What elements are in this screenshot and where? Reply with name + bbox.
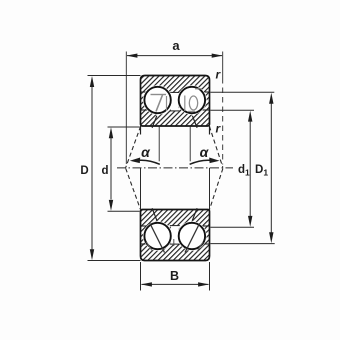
inner ring shoulder lines (bottom section) (141, 225, 148, 227)
dimension d: top arrowhead (109, 127, 113, 138)
raceway groove halo top-right (177, 85, 206, 114)
dimension D1: bottom arrowhead (269, 232, 273, 243)
center rib white gap (top section) (171, 93, 179, 111)
contact line segment through inner ring, bottom-right (192, 208, 197, 220)
dimension a: right arrowhead (212, 54, 223, 58)
watermark mark in top-left ball (151, 95, 167, 112)
dimension D: line (91, 87, 93, 250)
contact angle line lower-right (dashed) (209, 168, 223, 209)
dimension D1: leaders (211, 91, 275, 93)
alpha arrow right (190, 160, 210, 164)
dimension d1: bottom arrowhead (248, 216, 252, 227)
dimension B: right arrowhead (198, 282, 209, 286)
svg-text:α: α (141, 144, 151, 160)
dimension d: line (110, 137, 112, 200)
dimension a: extension line right upper (222, 52, 224, 79)
dimension d: leaders (108, 126, 140, 128)
dimension a: extension line right lower (dashed) (222, 78, 224, 165)
dimension D1: top arrowhead (269, 93, 273, 104)
contact line through bottom-left ball (150, 224, 165, 253)
bottom bearing section (outer+inner ring, hatched) (141, 210, 210, 261)
svg-text:D: D (80, 165, 88, 177)
contact line segment through inner ring, bottom-left (152, 208, 157, 220)
dimension a: extension line left (125, 52, 127, 165)
dimension a: left arrowhead (126, 54, 137, 58)
dimension D: top arrowhead (90, 76, 94, 87)
svg-text:a: a (172, 38, 180, 53)
dimension d1: top arrowhead (248, 111, 252, 122)
raceway groove halo top-left (143, 85, 172, 114)
face extension line right (axis to bottom section) (209, 168, 211, 210)
contact angle line lower-left (dashed) (126, 168, 141, 209)
svg-text:α: α (200, 144, 210, 160)
ball bottom-left (144, 223, 170, 249)
extra mark bottom-left ball (147, 242, 153, 252)
svg-text:B: B (170, 269, 179, 283)
bearing face stub below top section right (209, 126, 211, 135)
alpha reference line left (158, 126, 160, 161)
top bearing section (outer+inner ring, hatched) (141, 76, 210, 127)
contact angle line upper-right (dashed) (209, 126, 223, 167)
alpha reference line right (189, 126, 191, 161)
dimension D: leaders (88, 75, 141, 77)
ball bottom-right (179, 223, 205, 249)
dimension D: bottom arrowhead (90, 249, 94, 260)
center rib white gap (bottom section) (171, 226, 179, 244)
contact angle line upper-left (dashed) (126, 126, 141, 167)
dimension a: line (127, 55, 222, 57)
watermark mark in top-right ball (185, 89, 202, 112)
bearing face stub below top section left (140, 126, 142, 135)
alpha arrow left (140, 160, 160, 164)
dimension D1: line (270, 103, 272, 234)
dimension d: bottom arrowhead (109, 200, 113, 211)
dimension B: line (142, 283, 209, 285)
ball top-right (179, 87, 205, 113)
face extension line left (axis to bottom section) (140, 168, 142, 210)
dimension d1: leaders (211, 109, 255, 111)
raceway groove halo bottom-left (143, 221, 172, 250)
dimension B: left arrowhead (141, 282, 152, 286)
contact line through bottom-right ball (185, 224, 200, 253)
svg-text:d: d (101, 165, 108, 177)
dimension B: extension lines (140, 262, 142, 291)
extra mark bottom-right ball (197, 242, 203, 252)
ball top-left (144, 87, 170, 113)
dimension d1: line (249, 121, 251, 217)
outer ring shoulder lines (top section) (141, 91, 148, 93)
outer ring shoulder lines (bottom section) (141, 243, 148, 245)
contact line segment through inner ring, top-left (152, 116, 157, 128)
small mark between bottom balls (173, 239, 175, 246)
contact line segment through inner ring, top-right (192, 116, 197, 128)
bearing axis centerline (dash-dot) (117, 167, 233, 169)
raceway groove halo bottom-right (177, 221, 206, 250)
inner ring shoulder lines (top section) (141, 109, 148, 111)
